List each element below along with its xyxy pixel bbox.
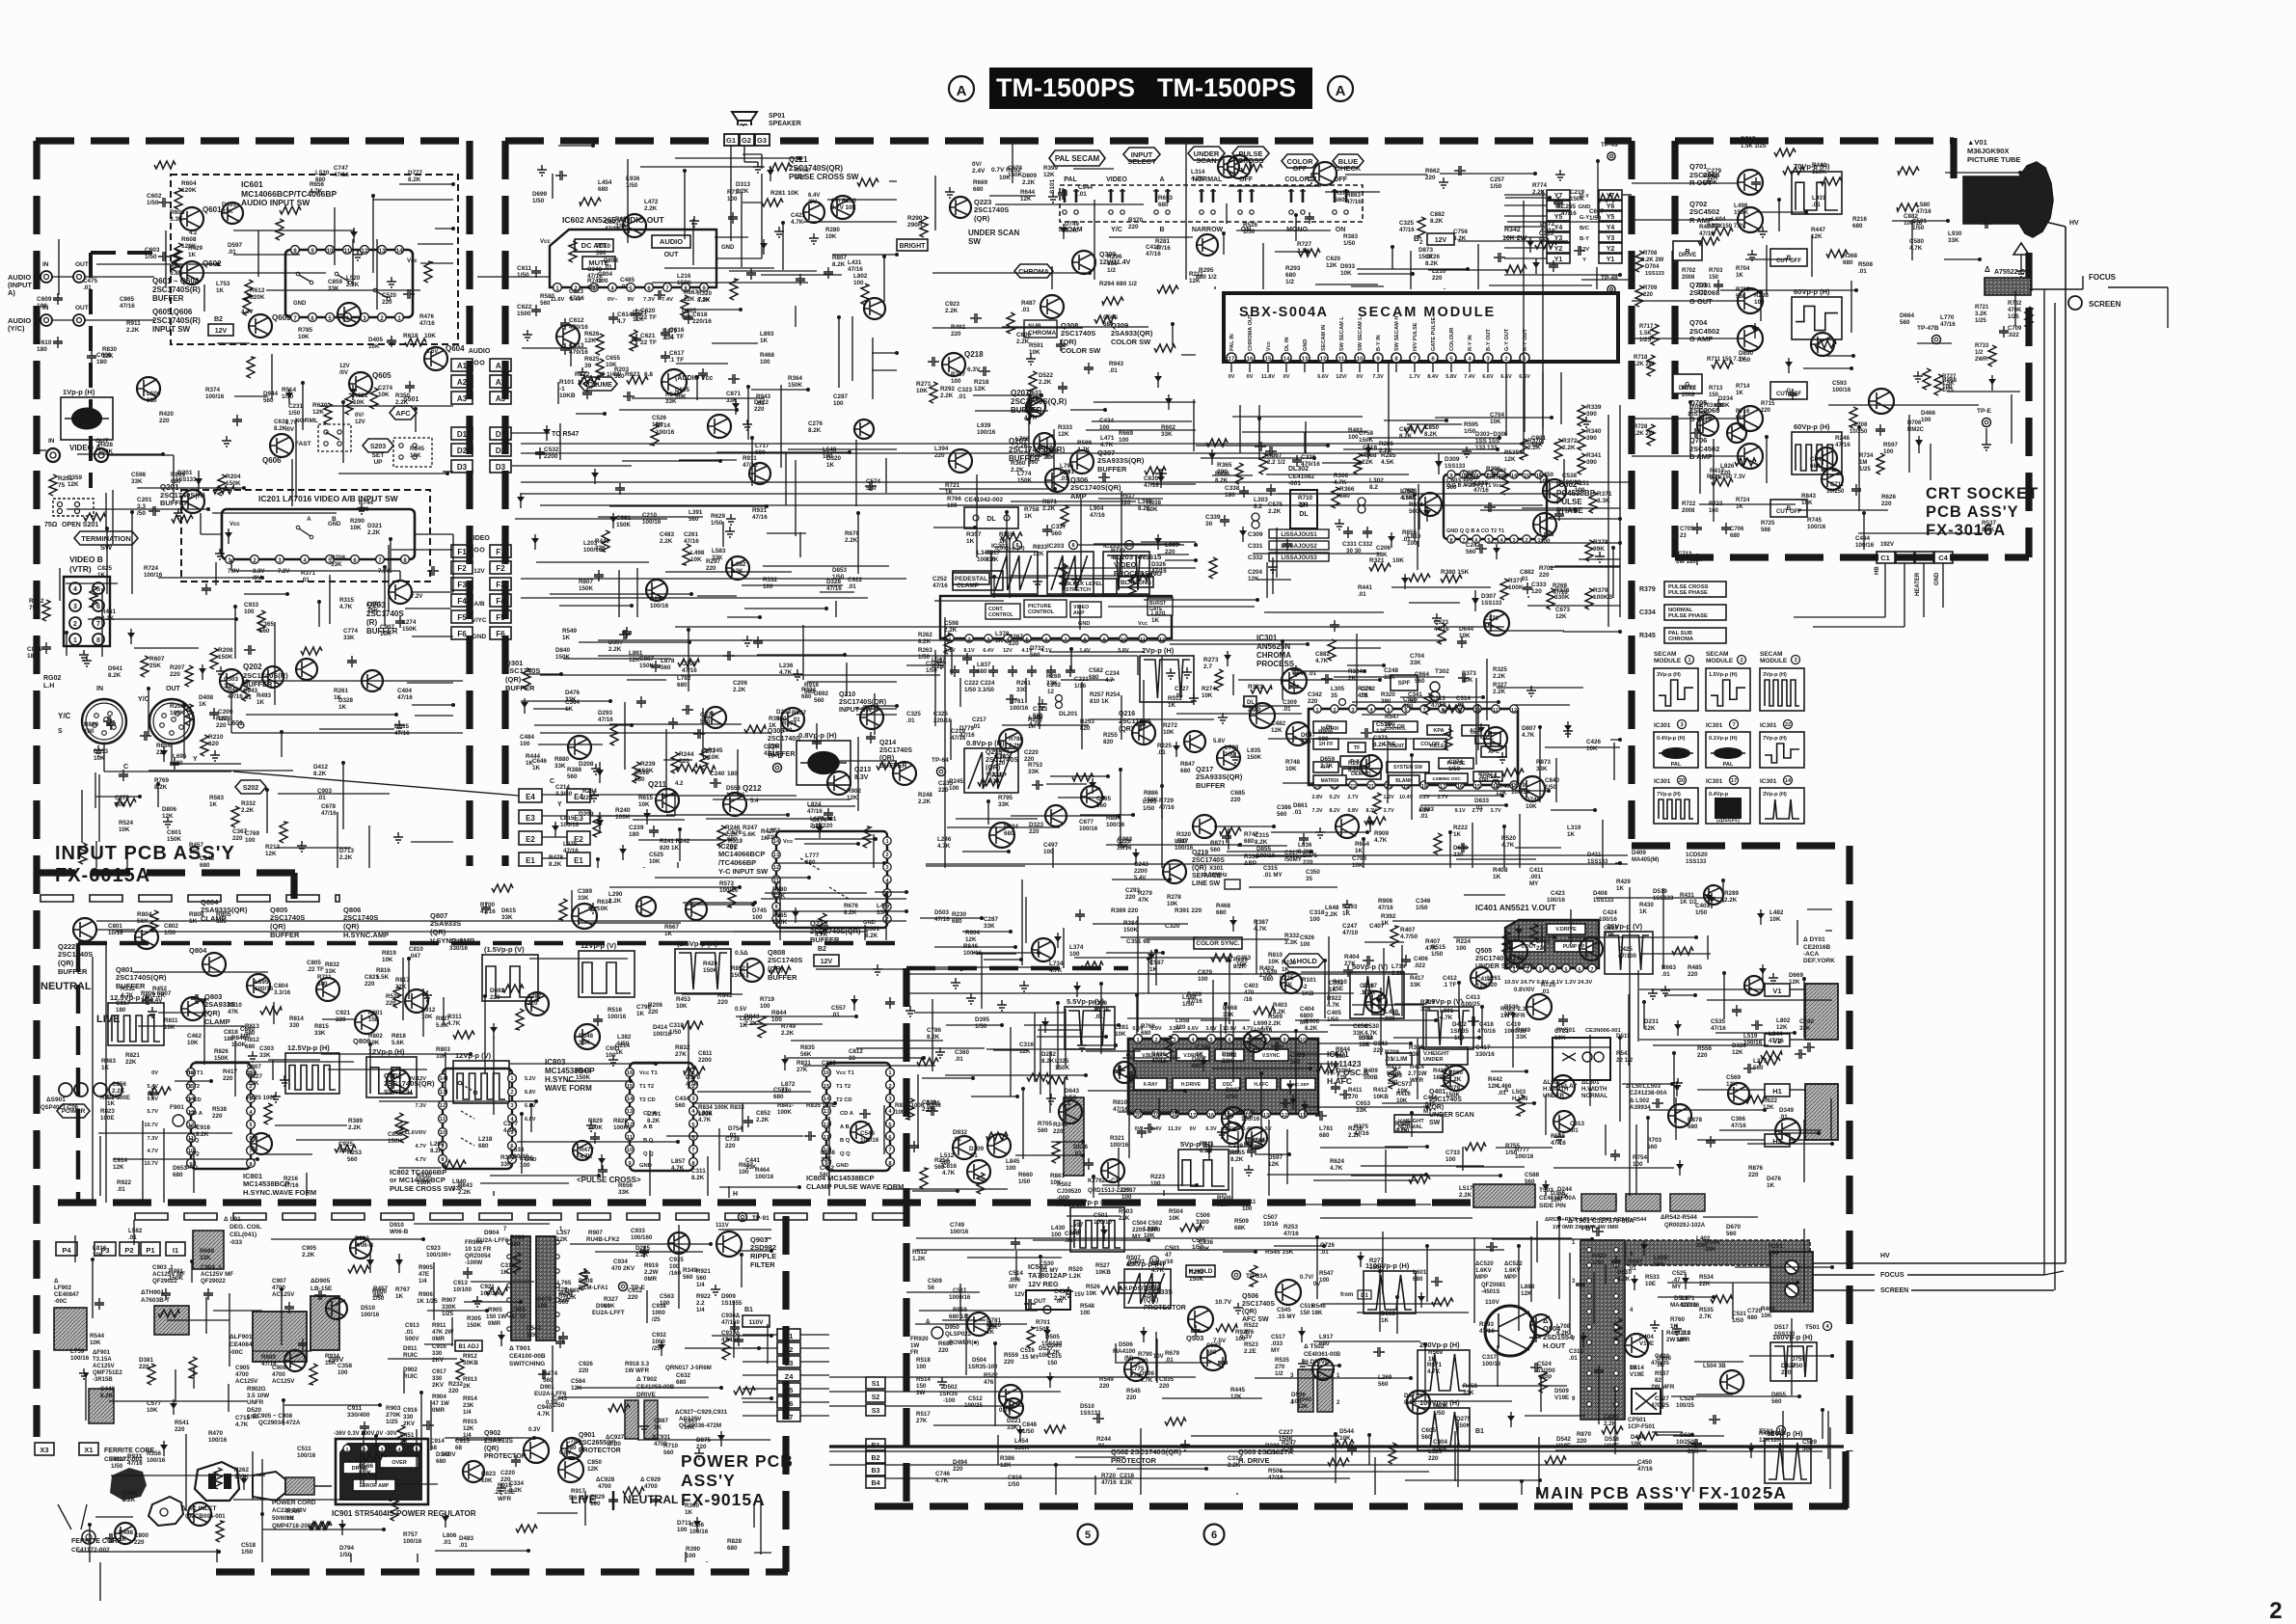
- termination SW hex label: [74, 531, 138, 545]
- ground: [473, 1296, 482, 1307]
- hex label COLOR OFF: [1282, 154, 1318, 168]
- svg-text:R597: R597: [1883, 442, 1899, 448]
- svg-text:C509: C509: [928, 1278, 942, 1285]
- svg-text:R846: R846: [963, 943, 979, 950]
- svg-text:B/C: B/C: [1580, 226, 1590, 231]
- svg-text:560: 560: [776, 716, 787, 722]
- svg-text:1K: 1K: [107, 1100, 116, 1107]
- bus wire vertical g: [1137, 916, 1139, 1032]
- svg-text:UP: UP: [373, 459, 383, 466]
- svg-text:1/25: 1/25: [1859, 467, 1871, 473]
- svg-text:D840: D840: [555, 647, 571, 654]
- svg-text:R248: R248: [918, 792, 932, 798]
- svg-text:R832: R832: [325, 961, 340, 968]
- resistor: [681, 295, 689, 316]
- svg-text:R468: R468: [760, 352, 775, 359]
- transistor: [1504, 940, 1527, 963]
- transistor Q503 hdrive: [1201, 1345, 1226, 1370]
- ground: [1769, 973, 1778, 984]
- svg-text:10K: 10K: [1169, 1215, 1180, 1222]
- svg-text:8.2K: 8.2K: [1255, 839, 1268, 846]
- svg-text:4.7K: 4.7K: [791, 219, 804, 226]
- svg-text:Δ DY01: Δ DY01: [1803, 936, 1825, 943]
- svg-text:220: 220: [648, 1009, 659, 1015]
- svg-text:BUFFER: BUFFER: [1097, 465, 1127, 474]
- svg-text:12K: 12K: [974, 386, 986, 392]
- resistor: [678, 659, 699, 666]
- diode: [341, 1520, 343, 1535]
- svg-text:2.2K: 2.2K: [608, 646, 622, 653]
- input/main PCB top dashed border left segment: [36, 137, 463, 144]
- waveform 1Vp-p input: [61, 397, 113, 440]
- svg-text:H.WIDTH: H.WIDTH: [1581, 1086, 1607, 1093]
- svg-text:8.2K: 8.2K: [918, 638, 932, 645]
- capacitor C621: [632, 334, 641, 345]
- svg-text:8.2K: 8.2K: [808, 427, 822, 434]
- svg-text:A75522-C: A75522-C: [1994, 269, 2025, 276]
- svg-text:L888: L888: [1521, 1284, 1535, 1290]
- svg-text:C882: C882: [1520, 569, 1535, 576]
- svg-text:1/50: 1/50: [282, 393, 294, 400]
- capacitor C709 022: [1999, 326, 2009, 338]
- svg-text:100/16: 100/16: [1832, 387, 1851, 393]
- svg-text:OUT: OUT: [75, 305, 89, 311]
- svg-text:D309: D309: [1445, 456, 1460, 463]
- svg-text:1/50: 1/50: [1448, 766, 1461, 772]
- capacitor: [693, 729, 705, 739]
- ground: [793, 669, 802, 680]
- svg-text:14: 14: [1511, 474, 1518, 479]
- resistor: [861, 284, 869, 305]
- svg-text:D670: D670: [537, 1296, 553, 1303]
- svg-text:R241 R242: R241 R242: [660, 838, 690, 845]
- svg-text:2.2K: 2.2K: [346, 282, 360, 288]
- resistor: [1373, 793, 1381, 814]
- svg-text:33K: 33K: [1199, 1246, 1210, 1253]
- svg-text:100: 100: [537, 1303, 548, 1310]
- svg-text:IC203: IC203: [1047, 543, 1065, 550]
- svg-text:R224: R224: [1004, 824, 1019, 830]
- svg-text:L246: L246: [937, 836, 952, 843]
- svg-text:2.2K: 2.2K: [1015, 443, 1029, 449]
- svg-text:Vcc: Vcc: [407, 258, 418, 264]
- svg-text:560: 560: [1378, 1381, 1389, 1388]
- svg-text:12K: 12K: [1326, 262, 1337, 269]
- svg-text:L837: L837: [977, 662, 991, 668]
- svg-text:47K: 47K: [1138, 897, 1149, 904]
- capacitor C711 10/250: [1851, 484, 1861, 496]
- svg-text:C242: C242: [1466, 542, 1481, 549]
- waveform 4.7Vp-p ic501 pin13: [1124, 1269, 1171, 1308]
- svg-text:(QR): (QR): [343, 922, 360, 931]
- svg-text:C580: C580: [1909, 238, 1925, 245]
- svg-text:X3: X3: [40, 1446, 48, 1454]
- svg-text:D321: D321: [367, 523, 383, 529]
- resistor R378 39K: [1585, 540, 1593, 561]
- power indicator circle: [59, 1083, 72, 1096]
- svg-text:C512: C512: [968, 1395, 983, 1402]
- svg-text:.01: .01: [1157, 749, 1166, 756]
- svg-text:1/50: 1/50: [1739, 357, 1751, 364]
- svg-text:680: 680: [436, 1458, 446, 1465]
- svg-text:1.2K: 1.2K: [1068, 1273, 1082, 1280]
- svg-text:R733: R733: [1111, 548, 1126, 555]
- svg-text:L454: L454: [598, 179, 612, 186]
- svg-text:560: 560: [663, 1449, 674, 1456]
- svg-text:150K: 150K: [639, 663, 655, 669]
- waveform 4.9Vp-p: [1423, 1007, 1473, 1049]
- svg-text:L269: L269: [1378, 1374, 1392, 1381]
- svg-text:680: 680: [1413, 1276, 1423, 1283]
- bus wire row G: [1196, 854, 1628, 856]
- svg-text:C925: C925: [338, 1141, 354, 1148]
- svg-text:C217: C217: [972, 717, 986, 723]
- svg-text:0.2V: 0.2V: [1329, 795, 1339, 800]
- svg-text:D899: D899: [650, 596, 665, 603]
- svg-text:R880: R880: [554, 756, 570, 763]
- svg-text:150K: 150K: [417, 1179, 432, 1186]
- ground: [639, 1421, 649, 1432]
- ground: [394, 720, 404, 731]
- svg-text:R911: R911: [743, 455, 757, 462]
- resistor R372 2.2K: [1554, 439, 1562, 460]
- resistor: [730, 279, 738, 300]
- svg-text:12K: 12K: [1043, 172, 1055, 178]
- svg-text:1K: 1K: [1342, 910, 1351, 917]
- ground: [248, 1051, 257, 1062]
- capacitor: [859, 1109, 871, 1119]
- svg-text:LINE SW: LINE SW: [1192, 880, 1221, 887]
- svg-text:E1: E1: [526, 856, 535, 865]
- svg-text:12V: 12V: [473, 568, 485, 575]
- capacitor: [232, 415, 242, 426]
- svg-text:PAL SECAM: PAL SECAM: [1055, 154, 1100, 163]
- svg-text:0V~: 0V~: [608, 297, 618, 303]
- resistor: [944, 633, 952, 654]
- svg-text:(QR): (QR): [1119, 726, 1133, 733]
- svg-text:8.2K: 8.2K: [772, 893, 786, 900]
- svg-text:8.2K: 8.2K: [154, 784, 168, 791]
- svg-text:C856: C856: [1353, 1023, 1368, 1030]
- wire y feed: [906, 664, 940, 666]
- diode D307: [1474, 590, 1476, 611]
- svg-text:D855: D855: [1256, 846, 1272, 853]
- svg-text:1/50: 1/50: [241, 1549, 254, 1556]
- svg-text:560: 560: [1753, 1065, 1764, 1071]
- svg-text:D615: D615: [501, 907, 517, 914]
- svg-text:NARROW: NARROW: [1192, 227, 1224, 233]
- svg-text:V.OUT: V.OUT: [1521, 944, 1537, 950]
- transistor: [575, 1024, 600, 1049]
- svg-text:QFZ0081: QFZ0081: [1481, 1283, 1506, 1288]
- svg-text:2.2E: 2.2E: [1244, 1348, 1256, 1355]
- svg-text:12Vp-p (V): 12Vp-p (V): [455, 1051, 492, 1060]
- svg-text:R404: R404: [1344, 954, 1360, 961]
- svg-text:D533: D533: [1027, 390, 1042, 396]
- svg-text:R944: R944: [576, 1068, 591, 1074]
- ground: [422, 990, 432, 1001]
- svg-text:L504 3B: L504 3B: [1703, 1363, 1726, 1369]
- svg-text:10K: 10K: [382, 957, 393, 963]
- svg-text:4.7K: 4.7K: [1191, 176, 1204, 182]
- svg-text:220: 220: [1053, 1128, 1064, 1135]
- svg-text:2.2K: 2.2K: [635, 1252, 649, 1259]
- svg-text:4.7K: 4.7K: [1151, 1267, 1165, 1274]
- svg-text:D807: D807: [1522, 725, 1537, 732]
- svg-text:R634: R634: [597, 899, 612, 906]
- svg-text:C325: C325: [1399, 220, 1415, 227]
- svg-text:.01: .01: [1358, 591, 1366, 598]
- svg-text:D476: D476: [565, 690, 581, 696]
- transistor: [1668, 1104, 1691, 1127]
- svg-text:33K: 33K: [1948, 237, 1959, 244]
- svg-text:IC803: IC803: [545, 1058, 566, 1067]
- BURST GATE box: [1148, 598, 1173, 615]
- svg-text:220: 220: [500, 1476, 511, 1483]
- svg-text:560: 560: [1446, 484, 1457, 491]
- svg-text:220: 220: [934, 452, 945, 459]
- svg-text:47K: 47K: [228, 1009, 239, 1015]
- capacitor C708 10/250: [1876, 424, 1885, 436]
- svg-text:10: 10: [440, 1130, 446, 1136]
- focus anode symbol: [2013, 243, 2029, 255]
- svg-text:7.3V: 7.3V: [147, 1136, 158, 1142]
- svg-text:5.6K: 5.6K: [392, 1040, 405, 1046]
- transistor: [1032, 938, 1055, 961]
- svg-text:4.7K: 4.7K: [1330, 1165, 1343, 1172]
- svg-text:D510: D510: [1080, 1403, 1094, 1410]
- ground: [1913, 371, 1923, 382]
- svg-text:D495: D495: [222, 202, 237, 208]
- wire video chain 2: [521, 597, 868, 599]
- svg-text:11: 11: [344, 249, 351, 255]
- svg-text:12K: 12K: [584, 338, 596, 344]
- svg-text:47: 47: [1165, 1252, 1172, 1259]
- svg-text:S1: S1: [872, 1381, 880, 1388]
- svg-text:R713: R713: [1709, 386, 1723, 392]
- svg-text:100/16: 100/16: [1254, 1027, 1273, 1034]
- svg-text:R504: R504: [1169, 1208, 1183, 1215]
- capacitor: [1475, 544, 1487, 554]
- transistor: [338, 303, 361, 326]
- svg-text:10K: 10K: [1163, 729, 1175, 736]
- svg-text:QMF751E2: QMF751E2: [93, 1370, 122, 1376]
- SECAM pin 13 GND: [1300, 353, 1310, 363]
- svg-text:R573: R573: [719, 880, 735, 887]
- svg-text:12K: 12K: [587, 1466, 599, 1473]
- capacitor: [1795, 1049, 1806, 1059]
- svg-text:C358: C358: [338, 1363, 353, 1369]
- resistor: [172, 250, 179, 271]
- svg-text:L935: L935: [1247, 747, 1261, 754]
- svg-text:680: 680: [245, 1043, 256, 1050]
- svg-text:A39934: A39934: [1630, 1104, 1651, 1111]
- svg-text:560: 560: [1415, 678, 1425, 685]
- svg-text:Vcc T1: Vcc T1: [836, 1070, 854, 1076]
- svg-text:5.7V: 5.7V: [147, 1109, 158, 1115]
- svg-text:A): A): [8, 288, 15, 297]
- svg-text:C406: C406: [1414, 956, 1428, 962]
- svg-text:150K: 150K: [1734, 209, 1749, 216]
- svg-text:4.7K: 4.7K: [1334, 479, 1347, 486]
- ground: [1342, 900, 1352, 910]
- diode: [1304, 1100, 1306, 1116]
- svg-text:560: 560: [820, 1172, 830, 1178]
- svg-text:C575: C575: [1268, 501, 1283, 508]
- svg-text:60Vp-p (H): 60Vp-p (H): [1794, 422, 1830, 431]
- svg-text:D883: D883: [1419, 806, 1435, 813]
- svg-text:Y4: Y4: [1607, 225, 1615, 231]
- Y connector column TP-49: [1607, 152, 1615, 160]
- svg-text:21: 21: [1368, 784, 1374, 790]
- svg-text:C331: C331: [1248, 543, 1263, 550]
- svg-text:1K: 1K: [1767, 1182, 1775, 1189]
- svg-text:R261: R261: [334, 688, 349, 694]
- svg-text:C557: C557: [831, 1005, 847, 1012]
- svg-text:.01: .01: [83, 284, 92, 291]
- diode: [1369, 817, 1371, 832]
- svg-text:R333: R333: [1058, 424, 1073, 431]
- svg-text:560: 560: [814, 697, 824, 704]
- svg-text:R583: R583: [209, 795, 225, 801]
- svg-text:G-Y OUT: G-Y OUT: [1504, 328, 1510, 351]
- svg-text:C632: C632: [274, 419, 289, 425]
- svg-text:C801: C801: [108, 923, 122, 930]
- transistor: [1580, 937, 1603, 961]
- svg-text:680: 680: [1103, 321, 1114, 328]
- svg-text:6.8V: 6.8V: [525, 1117, 536, 1123]
- svg-text:100/16: 100/16: [963, 950, 983, 957]
- svg-text:L781: L781: [1319, 1125, 1334, 1132]
- svg-text:D644: D644: [1459, 626, 1474, 633]
- svg-text:C609: C609: [37, 296, 52, 303]
- svg-text:2WR: 2WR: [1975, 357, 1988, 363]
- svg-text:R712: R712: [1682, 386, 1696, 392]
- capacitor C620 22TF: [632, 309, 641, 320]
- svg-text:R429: R429: [1616, 879, 1631, 885]
- svg-text:C350: C350: [1306, 869, 1320, 876]
- svg-text:R339: R339: [1586, 404, 1602, 411]
- resistor: [214, 1468, 222, 1489]
- resistor: [148, 1364, 155, 1385]
- svg-text:8.2: 8.2: [1254, 503, 1262, 510]
- svg-text:3W: 3W: [916, 1390, 925, 1396]
- svg-text:R449: R449: [1516, 1027, 1531, 1034]
- resistor: [744, 725, 766, 733]
- capacitor: [1098, 473, 1110, 482]
- svg-text:L824: L824: [807, 801, 822, 808]
- svg-text:R262: R262: [918, 632, 932, 638]
- svg-text:100: 100: [1080, 1310, 1091, 1316]
- svg-text:R535: R535: [1504, 449, 1520, 456]
- svg-text:C607: C607: [1589, 208, 1605, 215]
- svg-text:47/16: 47/16: [1144, 482, 1159, 489]
- svg-text:1K: 1K: [1149, 966, 1158, 973]
- svg-text:R272: R272: [1163, 722, 1178, 729]
- svg-text:1.4V: 1.4V: [1079, 648, 1091, 654]
- svg-text:GATE PULSE: GATE PULSE: [1431, 316, 1437, 351]
- svg-text:220: 220: [1643, 292, 1654, 298]
- resistor R626 12K: [596, 334, 604, 355]
- svg-text:220: 220: [725, 1143, 736, 1150]
- svg-text:1/2: 1/2: [1285, 279, 1294, 285]
- transistor Q508 protector small: [1124, 1358, 1148, 1381]
- svg-text:DL IN: DL IN: [1284, 337, 1290, 351]
- capacitor: [140, 731, 151, 741]
- wire audio Y/C to switch: [85, 319, 154, 321]
- svg-text:C603: C603: [145, 247, 160, 254]
- svg-text:C392: C392: [1329, 980, 1344, 987]
- svg-text:C424: C424: [1603, 909, 1617, 916]
- capacitor C610: [53, 337, 63, 348]
- svg-text:2.2K: 2.2K: [1348, 1132, 1362, 1139]
- svg-text:RUIC: RUIC: [403, 1352, 419, 1359]
- svg-text:L798: L798: [1225, 744, 1239, 751]
- svg-text:LISSAJOUS3: LISSAJOUS3: [1281, 555, 1317, 561]
- svg-text:33K: 33K: [1046, 680, 1058, 687]
- svg-text:1SS133: 1SS133: [1686, 859, 1707, 865]
- svg-text:220: 220: [1121, 500, 1131, 506]
- diode: [352, 385, 354, 400]
- resistor R623 6.8: [627, 376, 648, 384]
- svg-text:2.2 1/2: 2.2 1/2: [1267, 459, 1285, 466]
- svg-text:L588: L588: [1182, 994, 1197, 1001]
- ground: [725, 527, 735, 537]
- transistor Q506 afc: [1276, 1280, 1301, 1305]
- svg-text:680: 680: [1688, 1123, 1698, 1130]
- svg-text:C252: C252: [932, 576, 948, 582]
- CRT socket PCB right dashed border: [2025, 253, 2032, 557]
- svg-text:Q213: Q213: [854, 767, 871, 773]
- svg-text:B4: B4: [872, 1480, 880, 1487]
- capacitor: [1743, 1064, 1755, 1073]
- waveform T501-4 160Vp-p: [1770, 1342, 1817, 1381]
- resistor: [1502, 932, 1510, 953]
- diode: [1367, 444, 1369, 459]
- svg-text:R253: R253: [1283, 1224, 1299, 1231]
- svg-text:220: 220: [938, 1347, 949, 1354]
- svg-text:R905: R905: [419, 1264, 433, 1271]
- svg-text:.01: .01: [969, 1152, 978, 1159]
- resistor R625 39: [596, 359, 604, 380]
- svg-text:1K: 1K: [1736, 273, 1743, 279]
- ground: [1230, 752, 1240, 763]
- svg-text:R383: R383: [1343, 233, 1359, 240]
- ground: [1019, 981, 1029, 991]
- svg-text:C331 C332: C331 C332: [1342, 541, 1373, 548]
- svg-text:OUT: OUT: [75, 261, 89, 268]
- svg-text:60Vp-p (H): 60Vp-p (H): [1794, 287, 1830, 296]
- svg-text:1/50: 1/50: [1243, 229, 1256, 235]
- svg-text:.01: .01: [958, 393, 966, 400]
- svg-text:Y: Y: [193, 756, 198, 763]
- svg-text:R368: R368: [1843, 253, 1858, 259]
- resistor: [79, 843, 87, 864]
- capacitor: [1401, 955, 1411, 966]
- svg-text:Z4: Z4: [785, 1372, 795, 1381]
- svg-text:.022: .022: [1414, 962, 1426, 969]
- svg-text:220: 220: [696, 1444, 707, 1450]
- IC501 internal blocks: [1134, 1049, 1171, 1061]
- svg-text:L845: L845: [1006, 1158, 1020, 1165]
- svg-text:33K: 33K: [1376, 552, 1388, 558]
- svg-text:(QR): (QR): [484, 1446, 499, 1452]
- svg-text:TF: TF: [1354, 745, 1361, 751]
- resistor R709 220: [1635, 285, 1643, 307]
- svg-text:8.2K: 8.2K: [108, 672, 122, 679]
- svg-text:D3: D3: [496, 463, 506, 472]
- transistor: [989, 823, 1014, 848]
